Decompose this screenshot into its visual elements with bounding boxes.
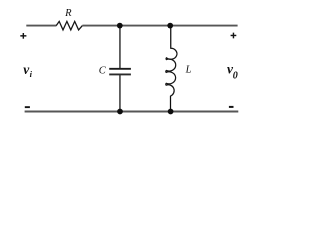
terminal minus (input)	[25, 106, 30, 108]
junction node top-L	[167, 23, 173, 29]
wire top right (resistor to vo+)	[82, 25, 237, 27]
junction node bottom-L	[168, 109, 174, 115]
wire capacitor bottom lead	[119, 75, 121, 111]
node label vo	[227, 61, 238, 81]
wire inductor bottom lead	[170, 96, 172, 112]
resistor R	[56, 21, 82, 30]
terminal plus (input)	[20, 33, 26, 39]
wire inductor top lead	[170, 26, 172, 49]
svg-text:L: L	[185, 65, 192, 76]
wire bottom	[25, 111, 239, 113]
capacitor C	[109, 69, 131, 75]
terminal minus (output)	[229, 106, 234, 108]
junction node bottom-C	[117, 109, 123, 115]
wire top left (vi+ to resistor)	[26, 25, 56, 27]
svg-text:0: 0	[233, 70, 238, 81]
junction node top-C	[117, 23, 123, 29]
svg-text:C: C	[99, 65, 107, 76]
svg-text:i: i	[30, 69, 33, 79]
terminal plus (output)	[231, 33, 237, 39]
wire capacitor top lead	[119, 26, 121, 69]
inductor L	[166, 48, 177, 96]
svg-text:R: R	[64, 8, 72, 19]
node label vi	[23, 62, 32, 79]
